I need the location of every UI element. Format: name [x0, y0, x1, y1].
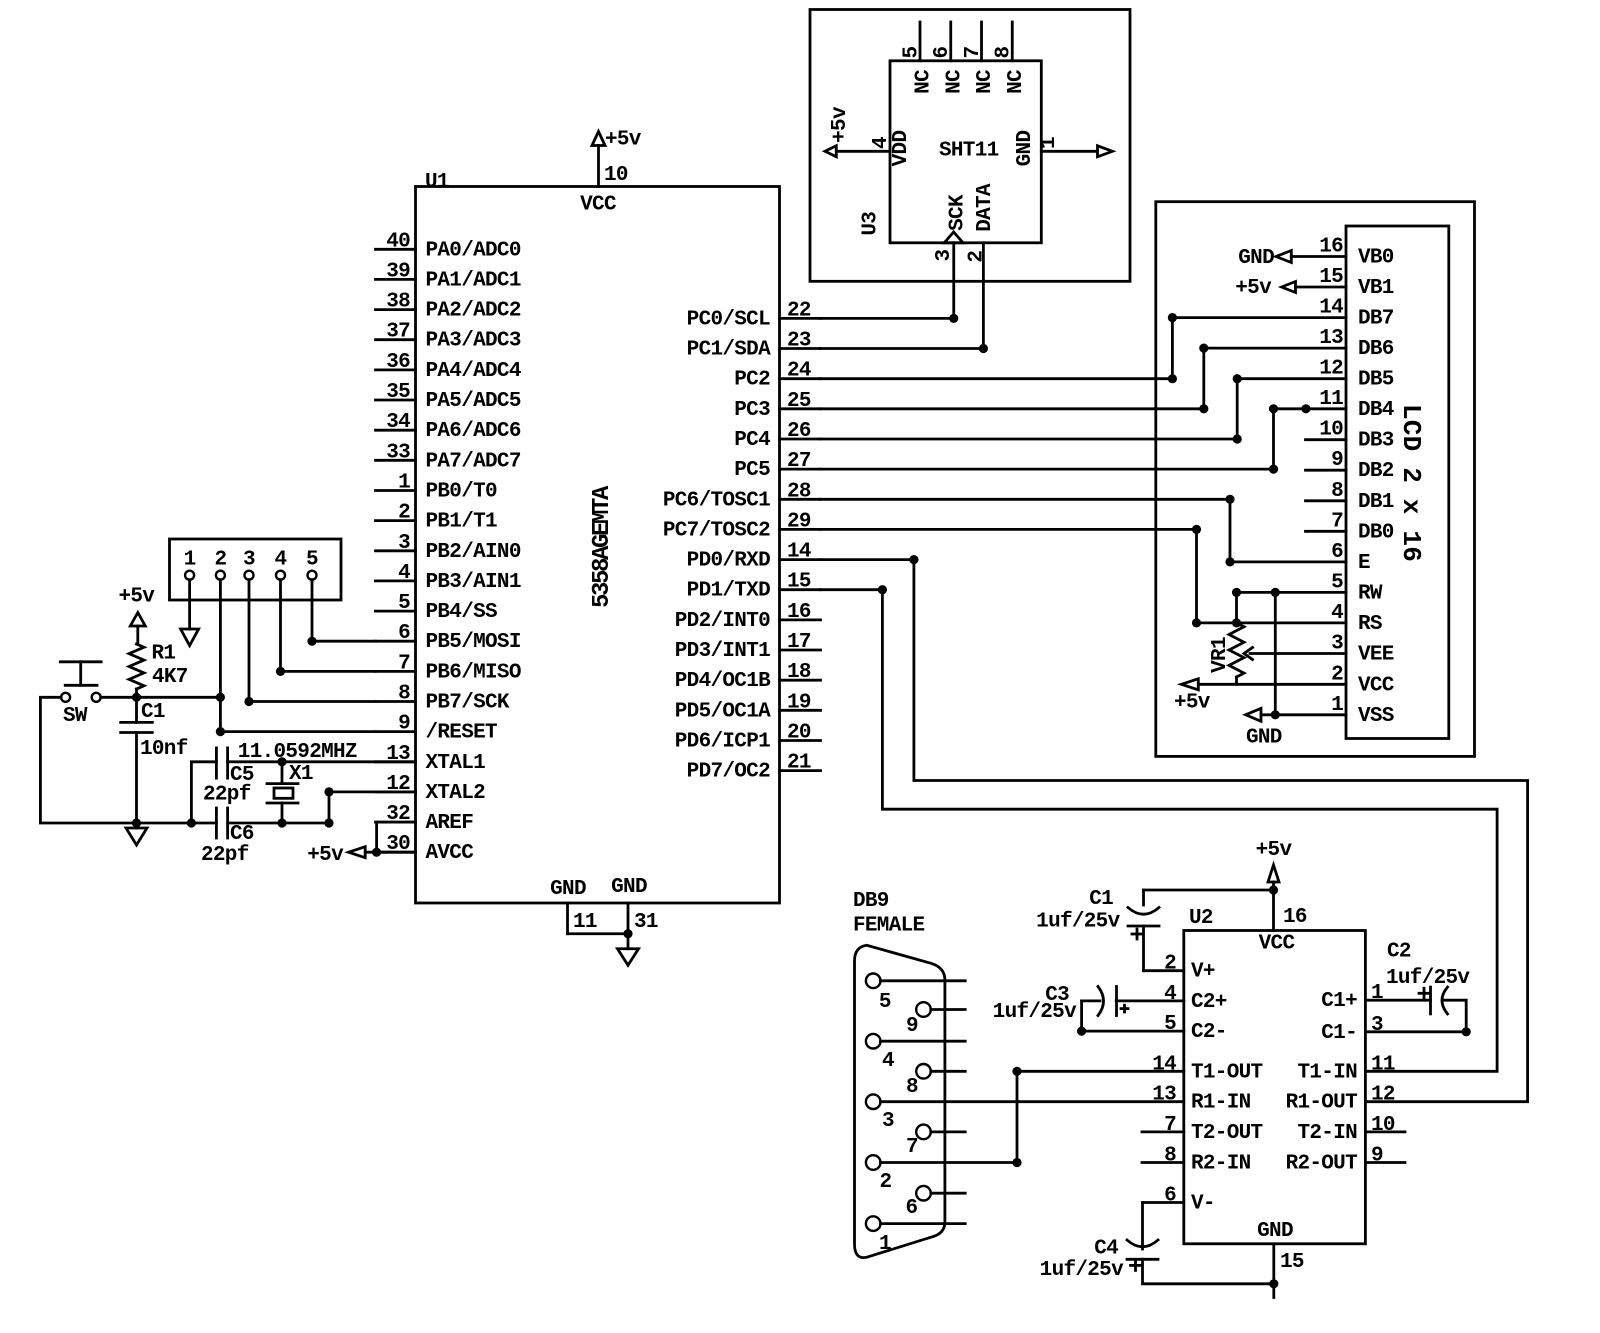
svg-text:PB4/SS: PB4/SS	[426, 601, 498, 624]
svg-text:NC: NC	[1005, 69, 1028, 94]
svg-text:PB3/AIN1: PB3/AIN1	[426, 571, 521, 594]
svg-text:PB2/AIN0: PB2/AIN0	[426, 541, 521, 564]
power +5v arrow VB1	[1235, 277, 1295, 300]
U1 pin 1 PB0/T0	[376, 472, 498, 504]
wire VEE wiper	[1244, 648, 1346, 660]
U1 pin 2 PB1/T1	[376, 502, 498, 534]
svg-text:6: 6	[905, 1197, 917, 1220]
svg-text:C6: C6	[230, 823, 254, 846]
svg-text:40: 40	[386, 230, 410, 253]
svg-text:9: 9	[1371, 1145, 1383, 1168]
svg-text:PA1/ADC1: PA1/ADC1	[426, 269, 521, 292]
ground symbol ISP pin1	[181, 629, 199, 646]
wire SCK to PC0/SCL	[821, 243, 954, 319]
svg-text:10nf: 10nf	[140, 738, 188, 761]
svg-text:PA7/ADC7: PA7/ADC7	[426, 450, 521, 473]
svg-text:33: 33	[386, 441, 410, 464]
svg-text:DB7: DB7	[1358, 308, 1394, 331]
svg-text:PD0/RXD: PD0/RXD	[687, 550, 770, 573]
svg-text:LCD 2 x 16: LCD 2 x 16	[1396, 404, 1426, 562]
svg-text:28: 28	[787, 480, 811, 503]
svg-text:SW: SW	[63, 705, 88, 728]
resistor R1 4K7	[129, 626, 188, 697]
svg-text:23: 23	[787, 330, 811, 353]
capacitor C5 22pf	[191, 748, 254, 823]
svg-text:1: 1	[1038, 137, 1061, 149]
svg-text:C1+: C1+	[1321, 990, 1357, 1013]
capacitor C3 1uf/25v	[993, 984, 1184, 1031]
junction C4 GND node	[1269, 1279, 1278, 1288]
svg-text:1uf/25v: 1uf/25v	[993, 1001, 1077, 1024]
svg-text:VSS: VSS	[1358, 705, 1394, 728]
svg-text:5: 5	[900, 46, 923, 58]
U1 pin 21 PD7/OC2	[687, 752, 821, 784]
svg-text:35: 35	[386, 381, 410, 404]
LCD pin 13 DB6	[1319, 327, 1394, 361]
svg-text:17: 17	[787, 631, 811, 654]
junction C1 bottom rail	[132, 818, 141, 827]
wire DB9 pin3 to R1-IN	[881, 1100, 1184, 1103]
svg-text:29: 29	[787, 510, 811, 533]
LCD pin 8 DB1	[1306, 480, 1394, 514]
svg-text:9: 9	[906, 1015, 918, 1038]
U2 pin 11 T1-IN	[1297, 1053, 1394, 1084]
svg-text:VCC: VCC	[580, 194, 617, 217]
svg-text:+5v: +5v	[605, 129, 642, 152]
wire LCD VCC +5v line	[1198, 683, 1346, 686]
svg-text:E: E	[1358, 552, 1370, 575]
DB9 pin 2	[866, 1155, 892, 1194]
wire PD1/TXD to T1-IN	[821, 590, 1498, 1072]
svg-text:3: 3	[243, 549, 255, 572]
svg-text:16: 16	[1283, 906, 1307, 929]
svg-text:9: 9	[398, 713, 410, 736]
svg-text:PA0/ADC0: PA0/ADC0	[426, 239, 521, 262]
svg-text:25: 25	[787, 390, 811, 413]
svg-text:AVCC: AVCC	[426, 842, 475, 865]
DB9 pin 4	[866, 1034, 965, 1073]
U1 pin 17 PD3/INT1	[675, 631, 821, 663]
svg-text:DATA: DATA	[974, 183, 997, 232]
SHT11 pin 1 GND	[1014, 131, 1098, 167]
junction DB4 corner	[1269, 404, 1278, 413]
svg-text:GND: GND	[1257, 1220, 1293, 1243]
junction RW VR1	[1232, 588, 1241, 597]
power +5v arrow above R1	[119, 586, 156, 627]
ground symbol below rail	[126, 823, 147, 845]
svg-text:PC0/SCL: PC0/SCL	[687, 308, 770, 331]
U1 pin 12 XTAL2	[376, 773, 486, 805]
svg-text:3: 3	[1331, 633, 1343, 656]
svg-text:2: 2	[880, 1171, 892, 1194]
svg-text:VCC: VCC	[1358, 674, 1395, 697]
svg-text:5: 5	[306, 549, 318, 572]
connector ISP header	[170, 539, 342, 600]
U2 pin 9 R2-OUT	[1286, 1145, 1405, 1176]
op-amp U1 ATMEGA8535 body	[416, 171, 780, 903]
svg-text:7: 7	[1331, 510, 1343, 533]
svg-text:PD2/INT0: PD2/INT0	[675, 610, 770, 633]
wire PC7 to RS	[821, 529, 1347, 623]
U1 pin 27 PC5	[734, 450, 820, 482]
svg-text:PD1/TXD: PD1/TXD	[687, 580, 770, 603]
LCD pin 9 DB2	[1306, 449, 1394, 483]
svg-text:4K7: 4K7	[152, 666, 188, 689]
svg-text:16: 16	[1319, 236, 1343, 259]
U1 pin 39 PA1/ADC1	[376, 260, 521, 292]
ISP header pin 5	[306, 549, 318, 580]
DB9 pin 1	[866, 1216, 965, 1256]
svg-text:PD7/OC2: PD7/OC2	[687, 761, 770, 784]
junction VSS node	[1271, 710, 1280, 719]
U2 pin 14 T1-OUT	[1152, 1053, 1262, 1084]
svg-text:22pf: 22pf	[201, 844, 249, 867]
svg-text:U3: U3	[860, 212, 883, 236]
svg-text:16: 16	[787, 601, 811, 624]
junction DB7 corner	[1168, 313, 1177, 322]
LCD module outer box	[1156, 202, 1475, 757]
svg-text:2: 2	[1331, 663, 1343, 686]
svg-text:DB0: DB0	[1358, 521, 1394, 544]
svg-text:PC3: PC3	[734, 399, 770, 422]
svg-text:PD5/OC1A: PD5/OC1A	[675, 700, 771, 723]
svg-text:DB2: DB2	[1358, 460, 1394, 483]
svg-text:XTAL1: XTAL1	[426, 752, 486, 775]
svg-text:2: 2	[214, 549, 226, 572]
svg-text:1uf/25v: 1uf/25v	[1386, 967, 1470, 990]
junction C2 C1- node	[1462, 1027, 1471, 1036]
svg-text:GND: GND	[1014, 131, 1037, 167]
svg-text:8: 8	[1164, 1145, 1176, 1168]
svg-text:11: 11	[573, 911, 597, 934]
U1 pin 8 PB7/SCK	[376, 683, 510, 715]
junction RW VSS vertical	[1271, 588, 1280, 597]
svg-text:NC: NC	[913, 69, 936, 94]
svg-text:11.0592MHZ: 11.0592MHZ	[238, 741, 357, 764]
DB9 pin 7	[906, 1125, 965, 1159]
junction PC5 corner	[1269, 465, 1278, 474]
svg-text:RS: RS	[1358, 613, 1382, 636]
svg-text:8: 8	[1331, 480, 1343, 503]
svg-text:38: 38	[386, 291, 410, 314]
svg-text:VDD: VDD	[890, 131, 913, 167]
svg-text:PD6/ICP1: PD6/ICP1	[675, 731, 770, 754]
svg-text:PB6/MISO: PB6/MISO	[426, 661, 521, 684]
potentiometer VR1	[1209, 623, 1244, 684]
wire RW net	[1237, 592, 1347, 623]
svg-text:8: 8	[993, 46, 1016, 58]
svg-text:+5v: +5v	[829, 106, 852, 143]
svg-text:PD3/INT1: PD3/INT1	[675, 640, 770, 663]
svg-text:DB3: DB3	[1358, 430, 1394, 453]
wire LCD VB0 to GND	[1291, 255, 1346, 258]
svg-text:27: 27	[787, 450, 811, 473]
ground arrow LCD VSS	[1246, 708, 1282, 749]
svg-text:4: 4	[398, 562, 410, 585]
svg-text:21: 21	[787, 752, 811, 775]
junction XTAL2 rail end	[324, 818, 333, 827]
U2 pin 13 R1-IN	[1152, 1084, 1250, 1115]
U1 pin 15 PD1/TXD	[687, 571, 821, 603]
U1 pin 28 PC6/TOSC1	[663, 480, 821, 512]
svg-text:11: 11	[1371, 1053, 1395, 1076]
connector DB9 FEMALE outline	[853, 890, 945, 1258]
SHT11 pin 8 NC	[993, 22, 1028, 94]
wire ISP pin4 to PB6/MISO	[281, 580, 376, 672]
sensor U3 SHT11 body	[860, 61, 1042, 243]
svg-text:12: 12	[1319, 358, 1343, 381]
svg-text:10: 10	[1319, 419, 1343, 442]
svg-text:15: 15	[787, 571, 811, 594]
svg-text:22pf: 22pf	[203, 784, 251, 807]
ground arrow VB0	[1238, 247, 1291, 270]
svg-text:+5v: +5v	[119, 586, 156, 609]
DB9 pin 5	[866, 974, 965, 1015]
U1 pin 4 PB3/AIN1	[376, 562, 521, 594]
svg-text:3: 3	[882, 1110, 894, 1133]
svg-text:/RESET: /RESET	[426, 722, 498, 745]
wire PC6 to E	[821, 499, 1347, 562]
svg-text:GND: GND	[1238, 247, 1274, 270]
capacitor C1 1uf/25v	[1036, 888, 1273, 971]
svg-text:1: 1	[398, 472, 410, 495]
svg-text:10: 10	[604, 164, 628, 187]
svg-text:+5v: +5v	[1235, 277, 1272, 300]
svg-text:11: 11	[1319, 388, 1343, 411]
svg-text:SCK: SCK	[946, 194, 969, 231]
DB9 pin 6	[905, 1186, 965, 1220]
junction PC4 corner	[1233, 434, 1242, 443]
svg-text:13: 13	[1319, 327, 1343, 350]
junction T1-OUT vertical	[1012, 1067, 1021, 1076]
svg-text:1uf/25v: 1uf/25v	[1036, 911, 1120, 934]
svg-text:PA4/ADC4: PA4/ADC4	[426, 360, 521, 383]
svg-text:PC2: PC2	[734, 369, 770, 392]
junction XTAL2 corner	[324, 787, 333, 796]
U1 pin 7 PB6/MISO	[376, 652, 521, 684]
junction PC7 corner	[1192, 525, 1201, 534]
ISP header pin 1	[184, 549, 196, 580]
wire XTAL1 net	[228, 760, 416, 763]
svg-text:5: 5	[398, 592, 410, 615]
svg-text:5: 5	[1164, 1013, 1176, 1036]
svg-text:PC6/TOSC1: PC6/TOSC1	[663, 489, 770, 512]
junction X1 bottom rail	[277, 818, 286, 827]
svg-text:PB0/T0: PB0/T0	[426, 481, 498, 504]
U1 GND pins 11 and 31	[550, 876, 658, 934]
wire LCD VSS to GND	[1261, 713, 1346, 716]
svg-text:NC: NC	[974, 69, 997, 94]
wire AVCC +5v	[365, 851, 415, 854]
svg-text:PC5: PC5	[734, 459, 770, 482]
junction DATA PC1	[979, 344, 988, 353]
svg-text:FEMALE: FEMALE	[853, 915, 925, 938]
svg-text:PA2/ADC2: PA2/ADC2	[426, 300, 521, 323]
U1 pin 3 PB2/AIN0	[376, 532, 521, 564]
junction AREF AVCC node	[372, 848, 381, 857]
svg-text:34: 34	[386, 411, 410, 434]
wire RW to VSS ground	[1274, 592, 1277, 714]
wire ISP pin2 to /RESET	[220, 580, 375, 732]
svg-text:36: 36	[386, 351, 410, 374]
wire SW left to ground rail	[40, 697, 216, 823]
svg-text:VR1: VR1	[1209, 637, 1232, 673]
junction ISP pin2 reset corner	[216, 727, 225, 736]
LCD pin 2 VCC	[1331, 663, 1395, 697]
wire PC5 to DB4	[821, 409, 1347, 469]
svg-text:NC: NC	[943, 69, 966, 94]
LCD pin 3 VEE	[1331, 633, 1394, 667]
svg-text:C4: C4	[1094, 1238, 1118, 1261]
svg-text:5: 5	[879, 991, 891, 1014]
svg-text:5358AGEMTA: 5358AGEMTA	[589, 485, 616, 608]
junction SCK PC0	[949, 314, 958, 323]
capacitor C4 1uf/25v	[1040, 1203, 1274, 1284]
wire DATA to PC1/SDA	[821, 243, 984, 349]
svg-text:VB0: VB0	[1358, 247, 1394, 270]
svg-text:DB5: DB5	[1358, 369, 1394, 392]
svg-text:PB1/T1: PB1/T1	[426, 511, 498, 534]
svg-text:DB1: DB1	[1358, 491, 1394, 514]
SHT11 pin 2 DATA	[965, 183, 997, 263]
svg-text:SHT11: SHT11	[939, 140, 999, 163]
junction X1 top XTAL1	[277, 757, 286, 766]
LCD pin 14 DB7	[1319, 297, 1394, 331]
LCD pin 6 E	[1331, 541, 1370, 575]
junction RS VR1 top	[1232, 618, 1241, 627]
svg-text:XTAL2: XTAL2	[426, 782, 486, 805]
power +5v arrow AVCC	[307, 844, 365, 867]
svg-text:2: 2	[398, 502, 410, 525]
crystal X1 11.0592MHZ	[238, 741, 357, 823]
svg-text:31: 31	[634, 911, 658, 934]
svg-text:RW: RW	[1358, 582, 1383, 605]
ground symbol below U1	[618, 934, 639, 966]
LCD pin 11 DB4	[1319, 388, 1394, 422]
svg-text:+5v: +5v	[307, 844, 344, 867]
svg-text:5: 5	[1331, 571, 1343, 594]
junction ISP pin3	[244, 697, 253, 706]
svg-text:GND: GND	[550, 878, 586, 901]
svg-text:R1: R1	[152, 643, 176, 666]
svg-text:4: 4	[1164, 983, 1176, 1006]
svg-text:PA3/ADC3: PA3/ADC3	[426, 330, 521, 353]
U1 pin 26 PC4	[734, 420, 820, 452]
U1 pin 25 PC3	[734, 390, 820, 422]
svg-text:7: 7	[398, 652, 410, 675]
svg-text:T1-OUT: T1-OUT	[1191, 1061, 1263, 1084]
power +5v arrow SHT11 VDD	[825, 106, 852, 157]
U1 pin 20 PD6/ICP1	[675, 722, 821, 754]
U2 pin 10 T2-IN	[1297, 1114, 1405, 1145]
SHT11 pin 7 NC	[962, 22, 997, 94]
LCD pin 16 VB0	[1319, 236, 1394, 270]
svg-text:6: 6	[1331, 541, 1343, 564]
svg-text:3: 3	[1371, 1014, 1383, 1037]
svg-text:10: 10	[1371, 1114, 1395, 1137]
LCD pin 7 DB0	[1306, 510, 1394, 544]
svg-text:PB5/MOSI: PB5/MOSI	[426, 631, 521, 654]
svg-text:6: 6	[931, 46, 954, 58]
transceiver U2 body	[1184, 907, 1366, 1244]
wire PC2 to DB7	[821, 318, 1347, 379]
U2 pin 5 C2-	[1164, 1013, 1227, 1044]
U1 pin 36 PA4/ADC4	[376, 351, 521, 383]
junction C5 leg rail	[187, 818, 196, 827]
switch SW	[60, 662, 101, 728]
wire PD0/RXD to R1-OUT	[821, 560, 1528, 1102]
svg-text:GND: GND	[611, 876, 647, 899]
svg-text:7: 7	[1164, 1114, 1176, 1137]
SHT11 pin 6 NC	[931, 22, 966, 94]
LCD pin 1 VSS	[1331, 694, 1394, 728]
svg-text:AREF: AREF	[426, 812, 474, 835]
svg-text:20: 20	[787, 722, 811, 745]
junction PC3 corner	[1199, 404, 1208, 413]
capacitor C2 1uf/25v	[1365, 941, 1470, 1032]
U2 pin 8 R2-IN	[1142, 1145, 1251, 1176]
LCD pin 5 RW	[1331, 571, 1383, 605]
ISP header pin 3	[243, 549, 255, 580]
ground arrow SHT11 GND	[1098, 146, 1113, 157]
wire XTAL2 net	[329, 792, 416, 823]
svg-text:4: 4	[275, 549, 287, 572]
svg-text:DB9: DB9	[853, 890, 889, 913]
U1 pin 22 PC0/SCL	[687, 299, 821, 331]
svg-text:26: 26	[787, 420, 811, 443]
DB9 pin 8	[906, 1064, 965, 1099]
U1 pin 30 AVCC	[376, 833, 475, 865]
junction PC2 corner	[1168, 374, 1177, 383]
U1 pin 34 PA6/ADC6	[376, 411, 521, 443]
U1 pin 18 PD4/OC1B	[675, 661, 821, 693]
LCD pin 12 DB5	[1319, 358, 1394, 392]
U1 pin 37 PA3/ADC3	[376, 321, 521, 353]
U1 pin 5 PB4/SS	[376, 592, 498, 624]
svg-text:4: 4	[1331, 602, 1343, 625]
U2 pin 7 T2-OUT	[1142, 1114, 1263, 1145]
wire ISP pin3 to PB7/SCK	[249, 580, 376, 702]
U1 pin 13 XTAL1	[376, 743, 486, 775]
connector LCD 2 x 16 body	[1346, 226, 1449, 739]
svg-text:7: 7	[962, 46, 985, 58]
U1 pin 32 AREF	[376, 803, 474, 835]
SHT11 module outer box	[810, 10, 1130, 282]
svg-text:13: 13	[1152, 1084, 1176, 1107]
power +5v arrow LCD VCC	[1174, 679, 1211, 715]
svg-text:X1: X1	[289, 763, 313, 786]
svg-text:U1: U1	[425, 171, 449, 194]
junction PD0 corner	[909, 555, 918, 564]
junction U1 GND	[623, 929, 632, 938]
U1 pin 35 PA5/ADC5	[376, 381, 521, 413]
svg-text:PC7/TOSC2: PC7/TOSC2	[663, 519, 770, 542]
svg-text:+5v: +5v	[1256, 839, 1293, 862]
U1 pin 14 PD0/RXD	[687, 541, 821, 573]
U1 pin 9 /RESET	[376, 713, 498, 745]
junction DB5 corner	[1233, 374, 1242, 383]
svg-text:22: 22	[787, 299, 811, 322]
U1 pin 19 PD5/OC1A	[675, 691, 821, 723]
svg-text:14: 14	[787, 541, 811, 564]
junction ISP pin5	[307, 637, 316, 646]
SHT11 pin 4 VDD	[836, 131, 913, 167]
junction RS corner	[1192, 618, 1201, 627]
junction DB6 corner	[1199, 344, 1208, 353]
svg-text:2: 2	[965, 251, 988, 263]
svg-text:C2: C2	[1387, 941, 1411, 964]
U2 VCC pin 16 +5v power symbol	[1256, 839, 1307, 931]
